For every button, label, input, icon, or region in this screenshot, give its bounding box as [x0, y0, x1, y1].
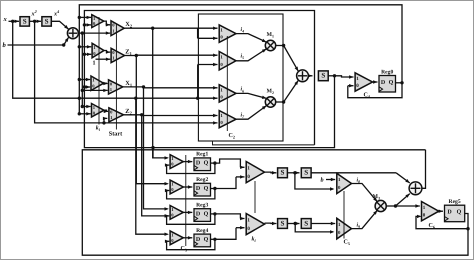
svg-text:1: 1 — [93, 61, 96, 67]
wire A1 to S — [308, 74, 313, 77]
label Start — [109, 131, 123, 138]
wire Reg2 out — [211, 187, 217, 190]
wire S4 to S5 — [287, 171, 299, 174]
wire Reg0 loop — [348, 83, 402, 98]
wire i6 to M2 — [235, 93, 267, 99]
mux C6 — [422, 202, 439, 221]
svg-text:Q: Q — [204, 186, 209, 192]
svg-text:D: D — [196, 161, 201, 167]
label C6 — [429, 223, 435, 230]
adder A1 — [297, 70, 309, 82]
svg-text:S: S — [23, 17, 27, 25]
wire Reg3 to muxB.1 — [215, 214, 245, 220]
wire i5 to M1 — [236, 49, 266, 61]
wire mux to Reg4 — [183, 236, 192, 239]
wire mux to Reg2 — [183, 185, 192, 188]
junction v1 x-line — [78, 97, 81, 100]
wire M3 out — [386, 204, 420, 207]
wire Reg5 Q out — [465, 214, 468, 229]
wire Reg2 hold loop — [165, 189, 215, 199]
mux big bottom — [246, 214, 264, 235]
wire Z2 output — [124, 113, 144, 116]
wire input bot row1 — [83, 23, 91, 26]
wire x2 down-right bus — [35, 21, 218, 124]
squarer S2 — [42, 17, 51, 26]
wire adder A0 output — [78, 31, 110, 34]
mux big top — [246, 162, 264, 183]
mux i8 — [337, 173, 352, 193]
svg-text:Q: Q — [204, 161, 209, 167]
input b label — [3, 42, 7, 49]
wire long feedback loop — [82, 150, 468, 255]
svg-text:x: x — [3, 16, 8, 23]
label Z2 — [125, 108, 131, 116]
adder A0 (x4+b) — [67, 28, 78, 39]
mux i9 — [337, 218, 352, 239]
wire Start select chain — [115, 24, 117, 130]
svg-text:b: b — [321, 177, 324, 184]
mux i7 — [219, 111, 236, 128]
wire bus to X1 in0 — [81, 89, 108, 92]
label i5 — [241, 53, 245, 61]
svg-text:C3: C3 — [181, 246, 187, 253]
svg-text:D: D — [196, 211, 201, 217]
branch x-line to row4 top — [134, 97, 169, 236]
label i9 — [357, 222, 361, 230]
svg-text:Reg3: Reg3 — [196, 203, 208, 209]
wire v2 drop — [81, 33, 83, 106]
mux small row1 — [92, 15, 104, 28]
squarer S1 — [20, 17, 29, 26]
wire input bot row2 — [83, 53, 92, 56]
wire X2 to i4.1 — [153, 27, 218, 30]
wire mux to Reg3 — [183, 211, 192, 214]
wire C6mux to Reg5 — [439, 210, 443, 213]
register Reg1 — [194, 152, 211, 171]
wire muxB to S6 — [265, 222, 277, 225]
wire input bot row4 — [78, 112, 91, 115]
i8i9 select chain — [343, 191, 345, 239]
wire M2 out — [276, 80, 299, 103]
wire input top row2 — [78, 45, 92, 48]
wire S5 branch down — [295, 173, 335, 191]
svg-text:Start: Start — [109, 131, 123, 138]
svg-text:Reg2: Reg2 — [196, 177, 208, 183]
label M1 — [267, 32, 274, 39]
wire M1 out — [276, 44, 299, 71]
label M3 — [373, 194, 380, 201]
wire X2 output — [124, 27, 154, 30]
wire X1 output — [123, 85, 145, 88]
wire riser to i5.0 — [196, 63, 218, 100]
wire Reg1 to muxT.1 — [215, 159, 245, 169]
mux small row2 — [92, 43, 104, 58]
svg-text:Q: Q — [204, 237, 209, 243]
label C5 — [344, 240, 350, 247]
mux X2 — [111, 21, 124, 36]
svg-text:S: S — [321, 72, 325, 80]
tap x2-line to Z2 mux in0 — [102, 117, 107, 125]
adder A2 — [409, 182, 422, 195]
wire i9 to M3 — [352, 210, 378, 228]
mux i5 — [219, 52, 236, 71]
label const 1 — [93, 61, 96, 67]
svg-text:D: D — [381, 80, 386, 86]
wire x arrow — [13, 20, 19, 23]
svg-text:Q: Q — [204, 211, 209, 217]
wire Z2 to i7.1 — [142, 114, 218, 117]
bus Z2 down to row3 — [142, 116, 169, 218]
wire Reg4 out — [211, 238, 217, 241]
wire Reg0 Q out — [396, 81, 404, 84]
mux small row4 — [92, 104, 105, 118]
wire i7 to M2 — [236, 106, 267, 120]
wire X2 jog to i4.0 — [198, 28, 218, 40]
wire input top row1 — [78, 16, 91, 19]
wire mux to Reg1 — [183, 160, 192, 163]
label b bottom — [321, 177, 324, 184]
svg-text:D: D — [196, 237, 201, 243]
svg-text:C6: C6 — [429, 223, 435, 230]
multiplier M2 — [265, 97, 275, 107]
register Reg0 — [379, 69, 396, 92]
wire x4 to adder A0 — [52, 21, 69, 29]
mux Z2 — [109, 108, 124, 122]
wire ki select chain — [98, 17, 100, 125]
svg-text:Q: Q — [389, 80, 394, 86]
label X2 — [125, 21, 132, 29]
middle select chain — [226, 36, 228, 131]
wire i4 to M1 — [236, 34, 267, 43]
wire Reg3 hold loop — [165, 214, 215, 224]
wire b to adder A0 — [8, 37, 69, 46]
label i8 — [357, 177, 361, 185]
wire M3 to adder A2 — [396, 194, 410, 206]
wire input top row4 — [81, 105, 91, 108]
bus X1 down to row3 — [144, 88, 169, 211]
svg-text:C2: C2 — [229, 133, 235, 140]
mux Reg2 input — [170, 180, 183, 194]
svg-text:Reg4: Reg4 — [196, 228, 208, 234]
mux Z1 — [111, 48, 124, 62]
mux i4 — [219, 25, 236, 43]
bigmux select — [254, 181, 256, 213]
wire net2 S-output feedback — [84, 11, 334, 148]
label X1 — [125, 80, 132, 88]
label i6 — [241, 86, 245, 94]
svg-text:D: D — [447, 209, 452, 215]
wire Reg3 out — [211, 212, 217, 215]
input x label — [3, 16, 8, 23]
wire X1 to i6.1 — [144, 86, 218, 89]
svg-text:Q: Q — [457, 209, 462, 215]
svg-text:Reg5: Reg5 — [449, 199, 461, 205]
wire Z1 output — [125, 54, 139, 57]
wire small to Z1 — [104, 50, 110, 53]
multiplier M1 — [265, 40, 275, 50]
squarer S5 — [301, 168, 311, 178]
svg-text:S: S — [304, 169, 308, 177]
mux Reg1 input — [170, 155, 183, 169]
wire i8 to M3 — [352, 184, 378, 202]
register Reg3 — [194, 203, 211, 222]
wire b to i8.1 — [326, 178, 335, 181]
mux i6 — [219, 85, 236, 102]
register Reg2 — [194, 177, 211, 196]
mux Reg3 input — [170, 206, 183, 220]
wire Reg2 to muxT.0 — [215, 175, 245, 188]
wire S5 out to adder A2 — [311, 173, 410, 183]
mux C4 — [355, 73, 372, 91]
svg-text:C5: C5 — [344, 240, 350, 247]
label x2 — [31, 9, 37, 18]
wire x down-right bus — [13, 21, 218, 100]
mux small row3 — [91, 76, 104, 91]
label ki bottom — [252, 236, 257, 244]
register Reg5 — [445, 199, 465, 222]
wire input bot row3 — [83, 85, 90, 88]
bus X2 down to row1 — [153, 28, 169, 159]
squarer S6 — [278, 219, 288, 229]
wire S1 to S2 — [30, 20, 42, 23]
svg-text:Reg1: Reg1 — [196, 152, 208, 158]
bus Z1 down to row2 — [136, 55, 169, 185]
svg-text:S: S — [281, 219, 285, 227]
label C4 — [364, 93, 370, 100]
wire A2 out up — [422, 150, 426, 189]
wire C2 select drop — [213, 141, 315, 145]
squarer S4 — [278, 168, 288, 178]
svg-text:S: S — [281, 169, 285, 177]
svg-text:D: D — [196, 186, 201, 192]
wire small to Z2 — [104, 110, 108, 113]
squarer S7 — [301, 219, 311, 229]
multiplier M3 — [375, 200, 386, 211]
mux Reg4 input — [170, 231, 183, 245]
wire Reg4 hold loop — [165, 239, 215, 249]
label C3 — [181, 246, 187, 253]
middle box — [198, 14, 283, 141]
wire small to X1 — [103, 82, 107, 85]
wire Reg1 out — [211, 161, 217, 164]
svg-text:S: S — [45, 17, 49, 25]
label ki — [96, 125, 101, 133]
mux X1 — [109, 80, 123, 94]
wire const1 to Z1 in0 — [96, 58, 111, 61]
wire S6 to S7 — [287, 222, 299, 225]
label x4 — [53, 9, 59, 18]
label i7 — [241, 112, 246, 120]
wire C4mux to Reg0 — [373, 80, 378, 83]
squarer S3 — [318, 71, 328, 81]
svg-text:Reg0: Reg0 — [381, 69, 393, 75]
wire Reg1 hold loop — [165, 163, 215, 173]
wire S7 out to i9.1 — [311, 222, 335, 225]
wire input top row3 — [78, 78, 91, 81]
wire small to X2 — [104, 21, 110, 26]
regfile select chain — [185, 155, 187, 246]
junction Reg5 out — [466, 227, 469, 230]
wire L1 feedback Reg0 to left bundle — [79, 5, 402, 114]
label i4 — [241, 26, 245, 34]
wire Reg4 to muxB.0 — [215, 226, 245, 239]
wire x input — [9, 20, 18, 23]
svg-text:S: S — [304, 219, 308, 227]
register Reg4 — [194, 228, 211, 247]
wire C6 loop — [416, 215, 468, 229]
label Z1 — [125, 48, 131, 56]
label M2 — [267, 88, 274, 95]
label C2 — [229, 133, 235, 140]
junction net2 row1 drop — [151, 146, 154, 158]
wire Z1 to i5.1 — [136, 54, 217, 57]
wire muxT to S4 — [265, 171, 277, 174]
wire S6 branch to i9.0 — [295, 224, 334, 234]
wire S3 out — [328, 74, 353, 79]
